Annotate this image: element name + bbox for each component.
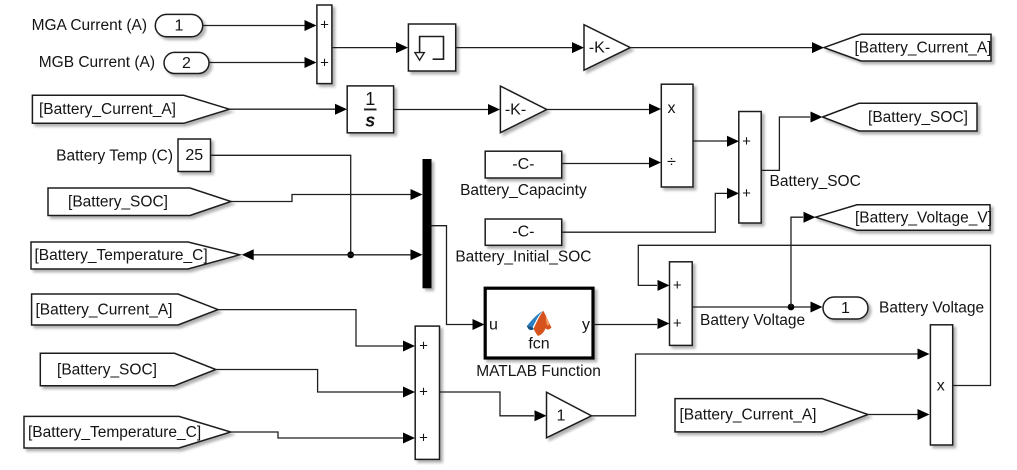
mux MX bbox=[423, 159, 432, 288]
from [Battery_SOC] mid-left bbox=[48, 188, 231, 216]
svg-text:[Battery_SOC]: [Battery_SOC] bbox=[68, 193, 168, 210]
memory M1 bbox=[408, 24, 455, 71]
svg-text:[Battery_Voltage_V]: [Battery_Voltage_V] bbox=[855, 209, 992, 226]
wire G2 to product P1 bbox=[547, 109, 649, 111]
svg-text:+: + bbox=[320, 16, 329, 33]
wire M1 to gain G1 bbox=[456, 47, 572, 49]
from [Battery_Temperature_C] bottom-left bbox=[24, 416, 231, 448]
wire to S4 input1 bbox=[218, 310, 403, 346]
svg-text:+: + bbox=[419, 430, 428, 447]
gain G3 (1) bbox=[547, 392, 592, 438]
wire 25 to junction bbox=[211, 155, 351, 255]
wire S3 to outport with junction bbox=[692, 306, 810, 308]
svg-text:u: u bbox=[489, 316, 498, 333]
constant C1 (-C-) Battery_Capacinty bbox=[485, 151, 562, 178]
integrator I1 (1/s) bbox=[347, 86, 393, 133]
wire junction to mux input2 bbox=[351, 254, 411, 256]
sum S1 bbox=[317, 5, 332, 84]
outport 1 Battery Voltage bbox=[823, 297, 868, 319]
goto [Battery_SOC] bbox=[823, 103, 978, 131]
svg-text:MATLAB Function: MATLAB Function bbox=[476, 363, 601, 380]
wire G1 to goto Battery_Current_A bbox=[630, 47, 812, 49]
svg-text:1: 1 bbox=[557, 408, 566, 425]
inport 1 (MGA) bbox=[155, 14, 202, 36]
svg-text:-K-: -K- bbox=[505, 101, 526, 118]
svg-text:+: + bbox=[742, 185, 751, 202]
wire inport2 to sum S1 bbox=[209, 62, 305, 64]
wire S2 to goto Battery_SOC bbox=[761, 117, 810, 170]
wire From SOC to mux input1 bbox=[231, 195, 411, 202]
from [Battery_Current_A] bottom-left bbox=[32, 294, 218, 325]
svg-text:2: 2 bbox=[182, 55, 191, 72]
wire MF y to sum S3 bbox=[593, 324, 657, 326]
from [Battery_SOC] bottom-left bbox=[40, 353, 216, 385]
wire I1 to gain G2 bbox=[394, 109, 488, 111]
gain G2 (-K-) bbox=[500, 86, 546, 133]
svg-text:Battery Voltage: Battery Voltage bbox=[700, 312, 805, 329]
svg-text:[Battery_Current_A]: [Battery_Current_A] bbox=[855, 40, 992, 57]
svg-text:+: + bbox=[673, 315, 682, 332]
svg-text:y: y bbox=[582, 317, 590, 334]
svg-text:-K-: -K- bbox=[589, 40, 610, 57]
wire From to P2 input2 bbox=[868, 414, 918, 416]
wire P1 to sum S2 bbox=[693, 140, 727, 142]
svg-text:-C-: -C- bbox=[512, 224, 534, 241]
inport 2 (MGB) bbox=[164, 52, 209, 73]
svg-text:x: x bbox=[937, 377, 945, 394]
constant 25 bbox=[178, 139, 211, 172]
svg-text:25: 25 bbox=[185, 147, 203, 164]
svg-text:+: + bbox=[419, 338, 428, 355]
svg-text:s: s bbox=[365, 111, 375, 131]
gain G1 (-K-) bbox=[584, 25, 630, 70]
svg-text:÷: ÷ bbox=[667, 154, 676, 171]
wire mux to MATLAB fn input u bbox=[432, 226, 473, 325]
wire From to integrator I1 bbox=[229, 108, 335, 110]
svg-text:1: 1 bbox=[175, 18, 184, 35]
wire C1 to P1 divide input bbox=[562, 163, 649, 165]
goto [Battery_Temperature_C] bbox=[31, 242, 240, 269]
svg-text:fcn: fcn bbox=[528, 336, 549, 353]
junction dot bbox=[347, 251, 354, 258]
svg-text:MGB Current (A): MGB Current (A) bbox=[39, 54, 155, 71]
wire C2 to S2 lower input bbox=[562, 193, 727, 232]
wire G3 to product P2 input1 bbox=[592, 354, 918, 416]
sum S3 (Battery Voltage) bbox=[670, 262, 693, 346]
junction dot S3 out bbox=[788, 304, 795, 311]
svg-text:1: 1 bbox=[841, 300, 850, 317]
svg-text:[Battery_Current_A]: [Battery_Current_A] bbox=[36, 302, 173, 319]
svg-text:Battery_SOC: Battery_SOC bbox=[770, 173, 861, 190]
memory icon bbox=[420, 37, 444, 60]
wire junction up to goto Battery_Voltage_V bbox=[791, 217, 803, 307]
from [Battery_Current_A] row2 bbox=[32, 95, 229, 123]
product P1 (x over divide) bbox=[661, 84, 693, 187]
svg-text:Battery Temp (C): Battery Temp (C) bbox=[56, 147, 173, 164]
svg-text:+: + bbox=[320, 54, 329, 71]
svg-text:-C-: -C- bbox=[512, 156, 534, 173]
wire S4 to gain G3 bbox=[440, 392, 535, 416]
goto [Battery_Current_A] bbox=[824, 34, 991, 61]
wire junction to goto Battery_Temperature_C (left arrow) bbox=[252, 254, 351, 256]
wire inport1 to sum S1 bbox=[203, 25, 305, 27]
svg-text:Battery_Initial_SOC: Battery_Initial_SOC bbox=[455, 248, 591, 265]
from [Battery_Current_A] bottom-right bbox=[675, 399, 868, 432]
svg-text:1: 1 bbox=[365, 89, 375, 109]
svg-text:MGA Current (A): MGA Current (A) bbox=[32, 17, 147, 34]
svg-text:[Battery_Temperature_C]: [Battery_Temperature_C] bbox=[35, 247, 208, 264]
svg-text:Battery Voltage: Battery Voltage bbox=[879, 299, 984, 316]
constant C2 (-C-) Battery_Initial_SOC bbox=[485, 219, 562, 245]
svg-text:[Battery_Temperature_C]: [Battery_Temperature_C] bbox=[28, 424, 201, 441]
MATLAB logo membrane bbox=[527, 311, 552, 336]
svg-text:+: + bbox=[673, 277, 682, 294]
product P2 (x) bbox=[930, 325, 952, 445]
wire to S4 input2 bbox=[216, 370, 403, 393]
MATLAB Function block MF bbox=[485, 288, 593, 358]
wire to S4 input3 bbox=[231, 432, 403, 438]
svg-text:[Battery_SOC]: [Battery_SOC] bbox=[57, 362, 157, 379]
svg-text:x: x bbox=[668, 100, 676, 117]
svg-text:+: + bbox=[419, 384, 428, 401]
wire P2 output loop to S3 input1 bbox=[638, 245, 990, 385]
svg-text:+: + bbox=[742, 133, 751, 150]
sum S2 (Battery_SOC) bbox=[739, 112, 761, 224]
svg-text:[Battery_Current_A]: [Battery_Current_A] bbox=[680, 407, 817, 424]
wire S1 to memory M1 bbox=[332, 47, 396, 49]
svg-text:Battery_Capacinty: Battery_Capacinty bbox=[460, 182, 587, 199]
svg-text:[Battery_SOC]: [Battery_SOC] bbox=[868, 109, 968, 126]
goto [Battery_Voltage_V] bbox=[816, 205, 991, 231]
sum S4 (3 inputs) bbox=[415, 326, 439, 459]
svg-text:[Battery_Current_A]: [Battery_Current_A] bbox=[39, 101, 176, 118]
